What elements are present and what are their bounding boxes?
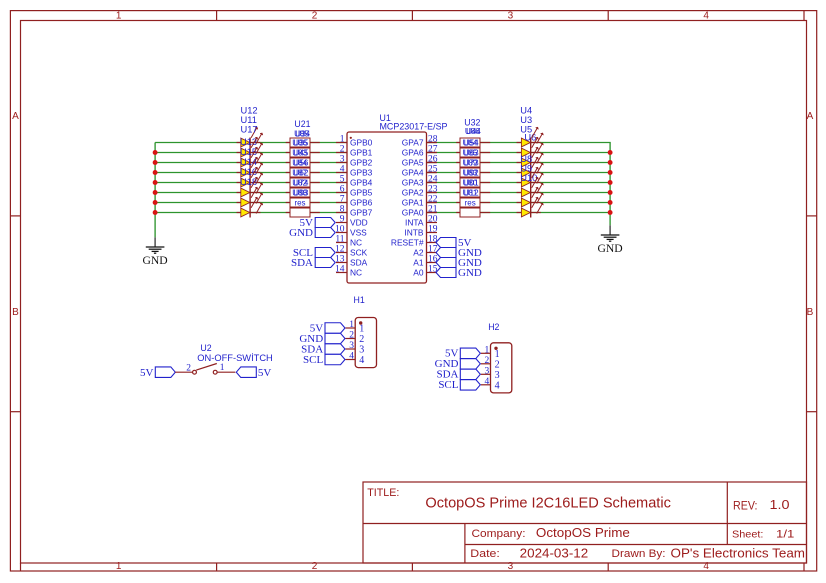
- svg-text:1: 1: [116, 561, 122, 572]
- svg-text:28: 28: [428, 134, 438, 144]
- svg-text:GPB5: GPB5: [350, 188, 373, 198]
- svg-text:GPA7: GPA7: [402, 138, 424, 148]
- svg-text:OctopOS Prime: OctopOS Prime: [536, 525, 630, 540]
- svg-text:1: 1: [220, 363, 225, 373]
- svg-text:U45: U45: [293, 149, 308, 158]
- svg-text:GPB0: GPB0: [350, 138, 373, 148]
- svg-text:VSS: VSS: [350, 228, 367, 238]
- svg-text:U93: U93: [293, 189, 308, 198]
- svg-text:GPA0: GPA0: [402, 208, 424, 218]
- svg-text:NC: NC: [350, 268, 362, 278]
- svg-text:3: 3: [485, 366, 490, 376]
- svg-text:1: 1: [495, 349, 500, 360]
- svg-text:7: 7: [340, 194, 345, 204]
- svg-text:1: 1: [349, 320, 354, 330]
- svg-text:INTA: INTA: [405, 218, 424, 228]
- svg-text:REV:: REV:: [733, 499, 758, 513]
- svg-text:U12: U12: [241, 106, 258, 116]
- svg-text:SCL: SCL: [303, 354, 323, 366]
- svg-text:14: 14: [335, 264, 345, 274]
- svg-text:U5: U5: [520, 125, 532, 135]
- svg-text:4: 4: [703, 11, 709, 22]
- svg-text:OctopOS Prime I2C16LED Schemat: OctopOS Prime I2C16LED Schematic: [425, 495, 671, 512]
- svg-text:5: 5: [340, 174, 345, 184]
- svg-text:SDA: SDA: [350, 258, 368, 268]
- svg-text:INTB: INTB: [404, 228, 423, 238]
- svg-text:U3: U3: [520, 115, 532, 125]
- svg-text:3: 3: [495, 370, 500, 381]
- svg-text:U34: U34: [295, 129, 310, 138]
- svg-text:1: 1: [116, 11, 122, 22]
- svg-text:GPB2: GPB2: [350, 158, 373, 168]
- svg-text:U2: U2: [200, 343, 211, 353]
- svg-text:5V: 5V: [140, 367, 154, 379]
- svg-text:VDD: VDD: [350, 218, 368, 228]
- svg-text:A: A: [12, 111, 19, 122]
- svg-text:21: 21: [428, 204, 438, 214]
- svg-text:U44: U44: [466, 127, 481, 136]
- svg-text:GPA2: GPA2: [402, 188, 424, 198]
- svg-text:U62: U62: [293, 169, 308, 178]
- svg-text:U17: U17: [241, 125, 258, 135]
- svg-text:4: 4: [340, 164, 345, 174]
- svg-text:OP's Electronics Team: OP's Electronics Team: [671, 545, 806, 560]
- svg-text:GND: GND: [458, 267, 482, 279]
- svg-text:6: 6: [340, 184, 345, 194]
- svg-text:GPA3: GPA3: [402, 178, 424, 188]
- svg-text:1: 1: [359, 324, 364, 335]
- svg-text:res: res: [294, 199, 305, 208]
- svg-text:8: 8: [340, 204, 345, 214]
- svg-text:U01: U01: [464, 179, 479, 188]
- svg-text:U9: U9: [520, 164, 532, 174]
- svg-text:U11: U11: [241, 115, 257, 125]
- svg-text:13: 13: [335, 254, 345, 264]
- svg-text:1/1: 1/1: [776, 528, 794, 540]
- svg-text:Drawn By:: Drawn By:: [612, 548, 666, 560]
- svg-text:2024-03-12: 2024-03-12: [520, 547, 589, 561]
- svg-text:GPB6: GPB6: [350, 198, 373, 208]
- svg-text:11: 11: [335, 234, 344, 244]
- svg-text:U54: U54: [464, 139, 479, 148]
- svg-text:2: 2: [495, 359, 500, 370]
- svg-text:res: res: [465, 199, 476, 208]
- svg-text:9: 9: [340, 214, 345, 224]
- svg-text:U56: U56: [293, 159, 308, 168]
- svg-text:4: 4: [485, 377, 490, 387]
- svg-text:2: 2: [359, 334, 364, 345]
- svg-text:3: 3: [340, 154, 345, 164]
- svg-text:1: 1: [485, 345, 490, 355]
- svg-text:GND: GND: [143, 255, 168, 267]
- svg-text:SCK: SCK: [350, 248, 368, 258]
- svg-text:12: 12: [335, 244, 345, 254]
- svg-text:A: A: [807, 111, 814, 122]
- svg-text:2: 2: [349, 331, 354, 341]
- svg-text:U21: U21: [294, 119, 310, 129]
- svg-text:TITLE:: TITLE:: [367, 487, 399, 499]
- svg-text:4: 4: [349, 352, 354, 362]
- svg-text:2: 2: [485, 356, 490, 366]
- svg-text:GPB4: GPB4: [350, 178, 373, 188]
- svg-text:3: 3: [349, 341, 354, 351]
- svg-text:U74: U74: [293, 179, 308, 188]
- svg-text:22: 22: [428, 194, 438, 204]
- svg-text:26: 26: [428, 154, 438, 164]
- svg-text:2: 2: [312, 561, 318, 572]
- svg-text:1: 1: [340, 134, 345, 144]
- svg-text:U35: U35: [293, 139, 308, 148]
- svg-text:27: 27: [428, 144, 438, 154]
- svg-text:Sheet:: Sheet:: [732, 529, 763, 540]
- svg-text:5V: 5V: [258, 367, 272, 379]
- svg-text:GND: GND: [598, 243, 623, 255]
- svg-text:GPB7: GPB7: [350, 208, 373, 218]
- svg-text:1.0: 1.0: [770, 497, 790, 512]
- svg-text:MCP23017-E/SP: MCP23017-E/SP: [380, 121, 448, 131]
- svg-text:H1: H1: [354, 295, 365, 305]
- svg-text:GPA4: GPA4: [402, 168, 424, 178]
- svg-text:4: 4: [495, 380, 500, 391]
- svg-text:20: 20: [428, 214, 438, 224]
- svg-text:2: 2: [340, 144, 345, 154]
- svg-text:U12: U12: [464, 189, 479, 198]
- svg-text:B: B: [12, 307, 19, 318]
- svg-text:23: 23: [428, 184, 438, 194]
- svg-text:3: 3: [508, 11, 514, 22]
- svg-text:GPB1: GPB1: [350, 148, 373, 158]
- svg-text:SDA: SDA: [291, 257, 313, 269]
- svg-text:RESET#: RESET#: [391, 238, 424, 248]
- svg-text:SCL: SCL: [438, 379, 458, 391]
- svg-text:GPA5: GPA5: [402, 158, 424, 168]
- svg-text:ON-OFF-SWİTCH: ON-OFF-SWİTCH: [197, 353, 272, 363]
- svg-text:NC: NC: [350, 238, 362, 248]
- svg-text:Date:: Date:: [470, 548, 500, 560]
- svg-text:GPB3: GPB3: [350, 168, 373, 178]
- svg-text:B: B: [807, 307, 814, 318]
- svg-text:U73: U73: [464, 159, 479, 168]
- svg-text:U92: U92: [464, 169, 479, 178]
- svg-text:3: 3: [359, 345, 364, 356]
- svg-text:H2: H2: [488, 322, 499, 332]
- svg-text:19: 19: [428, 224, 438, 234]
- svg-text:24: 24: [428, 174, 438, 184]
- svg-text:2: 2: [186, 364, 191, 374]
- svg-text:U8: U8: [520, 154, 532, 164]
- svg-text:2: 2: [312, 11, 318, 22]
- svg-text:GND: GND: [289, 227, 313, 239]
- svg-text:A2: A2: [413, 248, 424, 258]
- svg-text:GPA6: GPA6: [402, 148, 424, 158]
- svg-text:25: 25: [428, 164, 438, 174]
- svg-text:U63: U63: [464, 149, 479, 158]
- svg-text:4: 4: [359, 355, 364, 366]
- svg-text:Company:: Company:: [472, 528, 526, 540]
- svg-text:A1: A1: [413, 258, 424, 268]
- svg-text:A0: A0: [413, 268, 424, 278]
- svg-text:GPA1: GPA1: [402, 198, 424, 208]
- svg-text:10: 10: [335, 224, 345, 234]
